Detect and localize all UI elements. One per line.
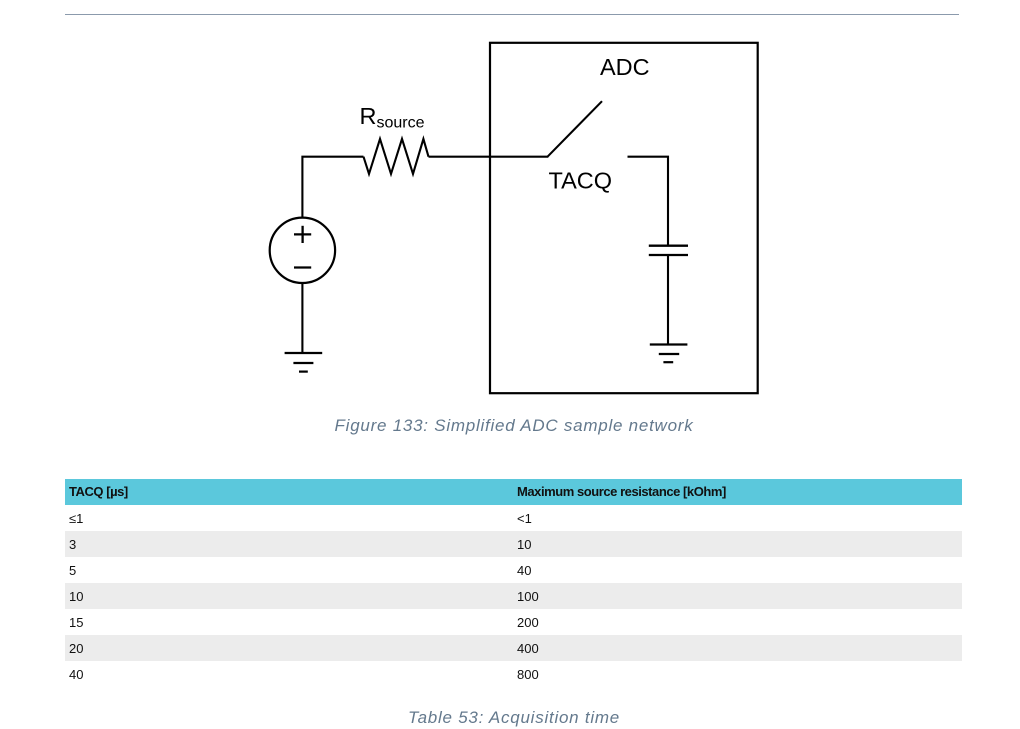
switch TACQ <box>548 101 603 157</box>
table caption <box>8 708 1020 728</box>
ADC box <box>490 43 758 393</box>
svg-text:TACQ: TACQ <box>549 168 613 194</box>
wire <box>429 156 549 158</box>
ground <box>650 345 688 363</box>
wire <box>667 255 669 345</box>
capacitor <box>649 246 688 255</box>
figure caption <box>8 416 1020 436</box>
table <box>65 479 962 688</box>
wire <box>628 157 669 245</box>
svg-text:ADC: ADC <box>600 54 650 80</box>
label Rsource <box>360 103 425 132</box>
voltage source V <box>270 218 335 283</box>
top rule <box>65 14 959 15</box>
resistor Rsource <box>364 139 429 174</box>
label ADC <box>600 54 650 80</box>
label TACQ <box>549 168 613 194</box>
wire <box>301 283 303 353</box>
circuit schematic <box>0 0 1020 460</box>
svg-text:Rsource: Rsource <box>360 103 425 132</box>
wire <box>302 157 363 218</box>
ground <box>285 353 323 372</box>
